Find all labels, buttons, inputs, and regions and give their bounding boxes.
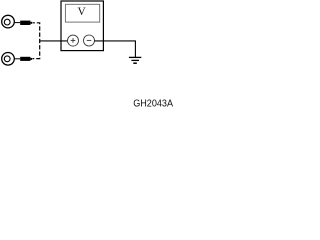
jack J2 (bottom phono jack) (2, 53, 15, 66)
terminal - (negative) (84, 35, 95, 46)
svg-text:V: V (77, 6, 86, 18)
plug P2 (bottom banana plug) (20, 57, 32, 61)
wire jack J2 to plug P2 (14, 58, 20, 60)
terminal + (positive) (68, 35, 79, 46)
jack J1 (top phono jack) (2, 15, 15, 28)
voltmeter display window (65, 4, 99, 22)
voltmeter U1 outer case (61, 1, 103, 51)
wire jack J1 to plug P1 (14, 22, 20, 24)
svg-text:GH2043A: GH2043A (133, 98, 173, 109)
ground (129, 57, 141, 63)
dashed test-lead wire from plugs to node A (33, 23, 40, 59)
plug P1 (top banana plug) (20, 21, 32, 25)
wire node A to voltmeter + terminal (40, 40, 68, 42)
wire - terminal to ground (94, 41, 135, 57)
